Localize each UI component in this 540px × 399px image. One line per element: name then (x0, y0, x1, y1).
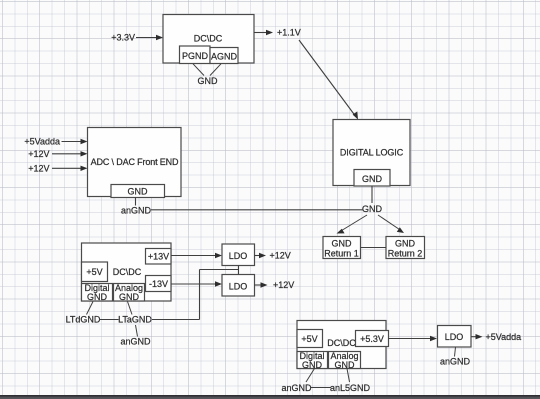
svg-text:GND: GND (362, 174, 383, 184)
svg-text:anGND: anGND (440, 357, 471, 367)
wire AGND to GND (210, 64, 221, 76)
svg-text:+12V: +12V (28, 149, 49, 159)
svg-text:anGND: anGND (121, 205, 152, 215)
pin Analog GND of U7 (329, 351, 361, 370)
svg-text:+5V: +5V (301, 334, 317, 344)
wire U6 output (255, 282, 268, 287)
svg-text:GND: GND (395, 239, 416, 249)
pin GND of U2 (354, 170, 390, 187)
wire U8 output (471, 334, 483, 339)
svg-text:anGND: anGND (281, 383, 312, 393)
wire ldo gnd horizontal (200, 269, 239, 271)
pin AGND (210, 48, 238, 64)
wire -13V to LDO2 (171, 281, 222, 286)
ldo U6 (222, 275, 255, 297)
wire +5Vadda input (62, 139, 88, 144)
svg-text:+12V: +12V (273, 280, 294, 290)
svg-text:+5V: +5V (86, 267, 102, 277)
svg-text:-13V: -13V (149, 279, 168, 289)
digital logic block U2 (333, 120, 410, 186)
wire +13V to LDO1 (171, 253, 222, 258)
svg-text:LTdGND: LTdGND (66, 315, 101, 325)
svg-text:+12V: +12V (270, 251, 291, 261)
wire +3.3V input (136, 35, 163, 40)
pin PGND (180, 46, 211, 64)
svg-text:+1.1V: +1.1V (277, 28, 301, 38)
svg-text:Return 2: Return 2 (388, 249, 423, 259)
svg-text:GND: GND (362, 204, 383, 214)
ldo U8 (438, 326, 472, 348)
wire anGND to GND node (151, 209, 363, 211)
wire LTaGND to anGND (136, 325, 138, 337)
svg-text:DIGITAL LOGIC: DIGITAL LOGIC (340, 148, 404, 158)
adc dac front end U3 (88, 128, 182, 197)
wire anGND to anL5GND (311, 387, 331, 389)
wire U5 output (255, 253, 267, 258)
svg-text:+5Vadda: +5Vadda (24, 137, 60, 147)
wire +12V input b (52, 166, 88, 171)
svg-text:GND: GND (87, 292, 108, 302)
gnd return 1 (323, 237, 361, 259)
svg-text:LTaGND: LTaGND (118, 315, 152, 325)
wire U2 GND down (371, 186, 373, 203)
wire digital gnd to LTdGND (87, 302, 94, 315)
svg-text:+3.3V: +3.3V (111, 33, 135, 43)
wire ldo gnd to LTaGND (152, 319, 200, 321)
svg-text:DC\DC: DC\DC (113, 267, 142, 277)
wire GND to return 2 (378, 215, 404, 233)
ldo U5 (222, 244, 255, 266)
wire U7 analog gnd to anL5GND (347, 369, 350, 383)
wire +12V input a (52, 151, 88, 156)
svg-text:GND: GND (302, 360, 323, 370)
pin +5V of U4 (82, 262, 108, 282)
svg-text:LDO: LDO (445, 332, 464, 342)
pin Digital GND of U7 (297, 351, 328, 370)
pin +13V of U4 (146, 249, 172, 265)
pin -13V of U4 (146, 276, 172, 292)
pin +5.3V of U7 (356, 331, 389, 347)
pin GND of U3 (111, 185, 165, 198)
dc-dc converter U4 (82, 243, 172, 301)
svg-text:GND: GND (198, 76, 219, 86)
bottom scrollbar (0, 395, 540, 399)
wire U5 gnd to U6 (238, 266, 240, 275)
pin Analog GND of U4 (114, 283, 145, 302)
wire LTdGND to LTaGND (99, 319, 119, 321)
svg-text:AGND: AGND (211, 51, 238, 61)
svg-text:GND: GND (128, 187, 149, 197)
svg-text:anGND: anGND (120, 337, 151, 347)
gnd return 2 (386, 237, 425, 259)
svg-text:LDO: LDO (229, 281, 248, 291)
wire +1.1V to digital logic (299, 40, 358, 120)
pin +5V of U7 (297, 330, 323, 348)
wire ldo gnd vertical (199, 270, 201, 320)
wire U8 gnd (455, 347, 456, 357)
svg-text:GND: GND (119, 292, 140, 302)
wire +1.1V output (254, 30, 273, 35)
svg-text:+5.3V: +5.3V (360, 334, 384, 344)
wire GND to return 1 (337, 215, 368, 234)
svg-text:ADC \ DAC Front END: ADC \ DAC Front END (91, 157, 179, 167)
svg-text:LDO: LDO (229, 251, 248, 261)
svg-text:DC\DC: DC\DC (327, 338, 356, 348)
wire PGND to GND (193, 64, 204, 76)
svg-text:PGND: PGND (182, 51, 209, 61)
svg-text:GND: GND (335, 360, 356, 370)
svg-text:GND: GND (332, 239, 353, 249)
wire +5.3V to LDO (389, 336, 438, 341)
svg-text:+13V: +13V (148, 252, 169, 262)
svg-text:DC\DC: DC\DC (194, 34, 223, 44)
dc-dc converter U1 (163, 15, 254, 64)
svg-text:+12V: +12V (28, 164, 49, 174)
wire U7 digital gnd to anGND (306, 369, 315, 383)
pin Digital GND of U4 (82, 283, 113, 302)
svg-text:+5Vadda: +5Vadda (486, 332, 522, 342)
wire U3 GND down (135, 198, 137, 206)
svg-text:Return 1: Return 1 (324, 249, 359, 259)
dc-dc converter U7 (297, 321, 386, 369)
svg-text:anL5GND: anL5GND (330, 383, 371, 393)
wire between returns (361, 247, 387, 249)
wire analog gnd to LTaGND (128, 302, 133, 315)
